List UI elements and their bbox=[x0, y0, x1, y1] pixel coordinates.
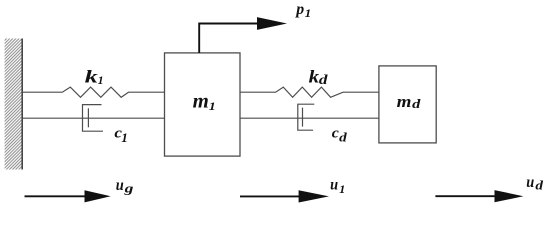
svg-text:d: d bbox=[339, 130, 347, 145]
svg-text:u: u bbox=[330, 176, 338, 193]
svg-text:1: 1 bbox=[305, 6, 312, 20]
svg-text:m: m bbox=[193, 91, 209, 113]
svg-text:m: m bbox=[397, 92, 412, 111]
svg-text:1: 1 bbox=[121, 130, 128, 145]
svg-text:d: d bbox=[412, 97, 421, 111]
svg-text:k: k bbox=[309, 66, 320, 86]
svg-text:c: c bbox=[332, 125, 339, 141]
svg-text:1: 1 bbox=[209, 99, 216, 113]
svg-text:g: g bbox=[123, 182, 133, 196]
svg-text:d: d bbox=[319, 73, 329, 88]
svg-text:u: u bbox=[116, 177, 124, 194]
svg-text:1: 1 bbox=[339, 182, 345, 196]
svg-text:1: 1 bbox=[98, 73, 104, 87]
svg-text:u: u bbox=[526, 174, 534, 191]
svg-text:d: d bbox=[535, 177, 543, 192]
svg-text:k: k bbox=[85, 66, 98, 86]
svg-text:p: p bbox=[294, 1, 304, 18]
